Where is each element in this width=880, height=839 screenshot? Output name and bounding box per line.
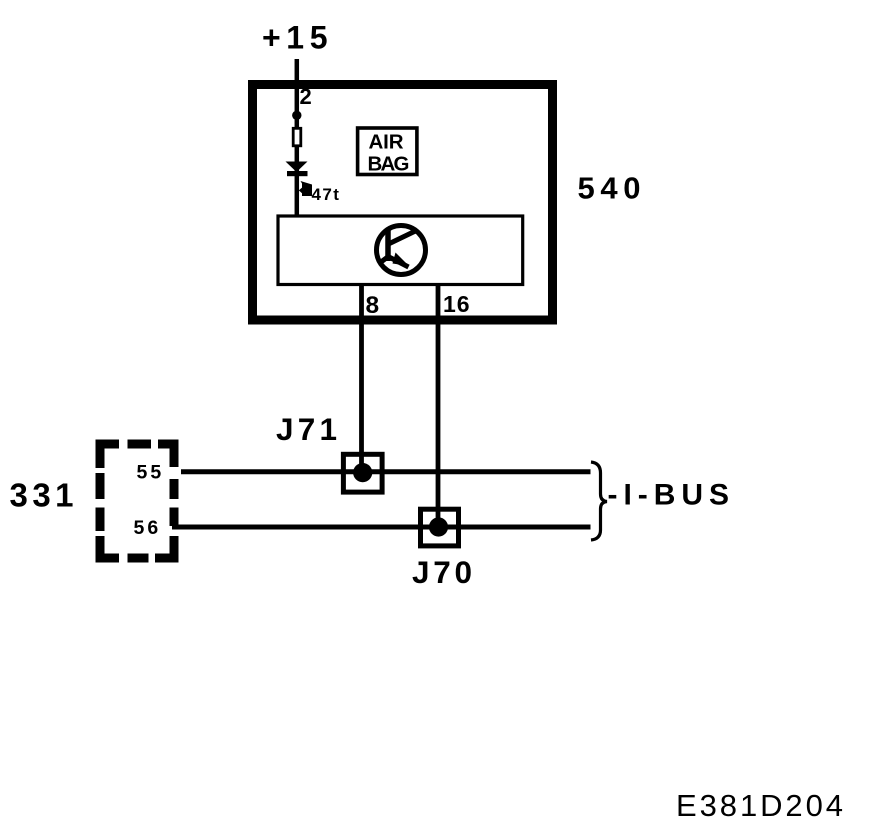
svg-text:540: 540 xyxy=(578,171,641,206)
transistor lower-left line xyxy=(381,258,387,263)
connector node J71 square xyxy=(343,454,382,492)
control unit 540 box xyxy=(253,85,553,321)
svg-text:J70: J70 xyxy=(412,554,472,590)
svg-text:E381D204: E381D204 xyxy=(676,788,843,823)
connector 331 dashed box left edge xyxy=(96,440,105,469)
svg-text:BAG: BAG xyxy=(368,152,410,175)
connector node J71 dot xyxy=(353,463,372,482)
svg-text:2: 2 xyxy=(300,84,312,109)
svg-text:56: 56 xyxy=(134,517,162,539)
svg-text:AIR: AIR xyxy=(369,131,404,154)
zener diode triangle xyxy=(286,162,308,173)
svg-text:J71: J71 xyxy=(276,411,337,447)
transistor base bar xyxy=(385,229,391,261)
I-BUS brace xyxy=(591,462,607,540)
connector 331 dashed box top edge xyxy=(96,440,120,449)
transistor circle xyxy=(377,226,426,275)
AIR BAG box xyxy=(358,128,417,175)
junction dot xyxy=(292,111,301,120)
connector node J70 square xyxy=(421,509,459,546)
svg-text:8: 8 xyxy=(366,292,380,319)
wire continuation arrow to 47t xyxy=(299,181,312,196)
svg-text:55: 55 xyxy=(137,462,165,484)
wire 56 to I-BUS xyxy=(172,525,591,530)
zener diode cathode bar xyxy=(287,171,308,176)
wire pin 8 down to J71 xyxy=(359,284,364,468)
output stage rectangle xyxy=(278,216,523,285)
svg-text:331: 331 xyxy=(10,477,74,514)
connector 331 dashed box right edge xyxy=(170,440,179,468)
fuse xyxy=(293,128,301,146)
wire pin 16 down to J70 xyxy=(436,284,441,523)
connector 331 dashed box bottom edge xyxy=(96,554,120,563)
svg-text:16: 16 xyxy=(443,291,470,317)
svg-text:+15: +15 xyxy=(262,20,328,56)
wire 55 to I-BUS xyxy=(181,469,591,474)
svg-text:-I-BUS: -I-BUS xyxy=(608,479,730,512)
wire from +15 down to output stage xyxy=(295,59,300,216)
transistor collector line xyxy=(390,230,418,244)
connector node J70 dot xyxy=(429,517,448,536)
svg-text:47t: 47t xyxy=(312,185,341,204)
transistor emitter line xyxy=(388,257,409,268)
transistor emitter arrowhead xyxy=(393,253,410,267)
